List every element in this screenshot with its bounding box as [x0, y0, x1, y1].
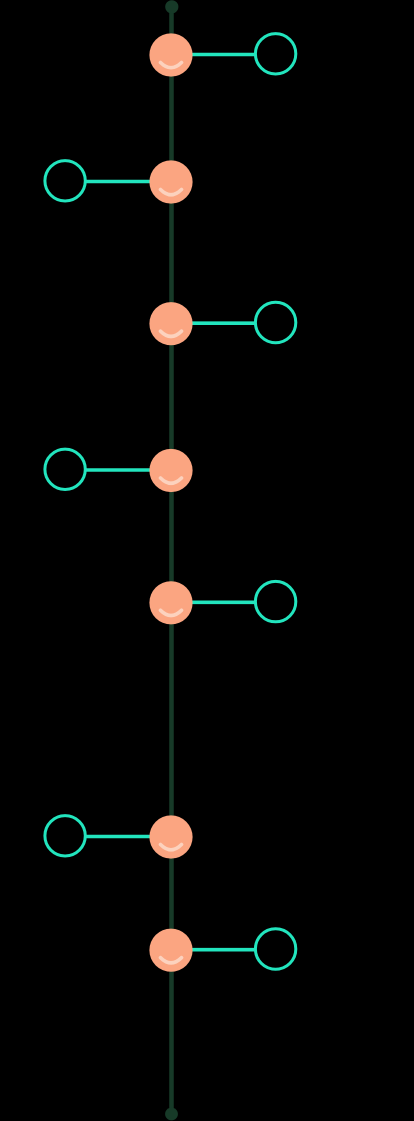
node 2 event dot — [149, 160, 192, 203]
timeline axis — [169, 7, 174, 1114]
node 2 satellite ring — [45, 161, 85, 201]
node 7 satellite ring — [255, 929, 295, 969]
node 3 event dot — [149, 302, 192, 345]
node 4 connector — [65, 468, 171, 472]
node 7 smile — [161, 958, 182, 963]
node 7 event dot — [149, 929, 192, 972]
node 5 connector — [171, 600, 276, 604]
node 3 satellite ring — [255, 302, 295, 342]
node 6 connector — [65, 835, 171, 839]
node 6 smile — [161, 845, 182, 850]
node 1 satellite ring — [255, 34, 295, 74]
node 6 event dot — [149, 815, 192, 858]
node 7 connector — [171, 948, 276, 952]
node 4 smile — [161, 478, 182, 483]
node 2 connector — [65, 180, 171, 184]
axis start dot — [165, 0, 178, 13]
node 5 smile — [161, 610, 182, 615]
node 6 satellite ring — [45, 816, 85, 856]
node 5 event dot — [149, 581, 192, 624]
node 1 connector — [171, 53, 276, 57]
node 3 connector — [171, 321, 276, 325]
node 1 smile — [161, 63, 182, 68]
node 2 smile — [161, 190, 182, 195]
node 4 event dot — [149, 449, 192, 492]
node 1 event dot — [149, 33, 192, 76]
axis end dot — [165, 1108, 178, 1121]
node 5 satellite ring — [255, 581, 295, 621]
node 4 satellite ring — [45, 449, 85, 489]
node 3 smile — [161, 331, 182, 336]
